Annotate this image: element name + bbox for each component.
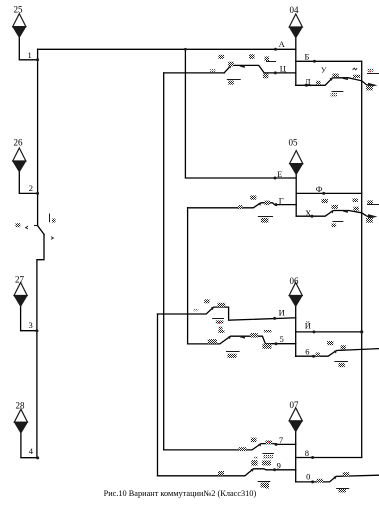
svg-text:9: 9 [277, 461, 281, 471]
antenna 28 [14, 401, 27, 434]
svg-text:25: 25 [14, 5, 24, 15]
riser R3 x=157.5 from row I down to row 9 [157, 314, 159, 476]
svg-text:Б: Б [305, 52, 310, 62]
mark row 5 d [264, 330, 272, 332]
mark row I underline [212, 318, 224, 320]
contact SC lever [224, 65, 231, 73]
svg-text:Д: Д [305, 76, 311, 86]
node 1 dot [36, 58, 39, 61]
mark row 5 underline [226, 351, 240, 353]
wire: row F from antenna 05 to right vertical [296, 192, 362, 194]
barb SX [331, 210, 334, 214]
mark row B a [265, 57, 270, 62]
mark row D b [332, 74, 338, 78]
mark row 9 b [251, 460, 257, 466]
svg-text:Ц: Ц [280, 64, 286, 74]
node J dot [312, 330, 315, 333]
mark caption area [265, 485, 269, 489]
mark row 0 c [339, 489, 347, 493]
mark row 9 d [261, 483, 270, 488]
wire: row 5 left segment with contact S5 [188, 336, 296, 344]
node B dot [313, 60, 316, 63]
bar tick row C [239, 65, 245, 68]
antenna 07 stem [295, 432, 297, 482]
mark row 6 d [339, 363, 345, 367]
svg-text:2: 2 [29, 183, 33, 193]
mark row C underline [227, 79, 241, 81]
mark row X e [367, 200, 372, 204]
mark row X g [332, 224, 337, 228]
node 9 dot [273, 468, 276, 471]
svg-text:06: 06 [290, 276, 300, 286]
antenna 26 stem and jog to node 2 [19, 172, 37, 193]
svg-text:Х: Х [305, 208, 311, 218]
svg-text:28: 28 [16, 401, 26, 411]
mark row X c [353, 198, 358, 202]
mark row D dotted2 [331, 93, 337, 98]
mark row G a [238, 205, 242, 209]
mark row G b [250, 195, 256, 199]
mark row 9 a [218, 471, 224, 476]
contact SC bar [231, 65, 296, 73]
mark row G underline [258, 216, 273, 218]
mark row D dotted [367, 68, 374, 71]
mark row C c [228, 62, 234, 67]
mark row X b [332, 205, 338, 209]
mark row 0 underline [336, 488, 349, 490]
svg-text:04: 04 [290, 5, 300, 15]
barb S5 [228, 336, 231, 340]
antenna 07 [289, 400, 302, 432]
svg-text:05: 05 [289, 138, 299, 148]
wire: row 7 left segment with contact S7 [164, 444, 296, 450]
mark row C b [249, 54, 255, 59]
contact lever arrow barbs [211, 65, 378, 480]
mark row 5 f [228, 354, 237, 358]
node 4 dot [36, 456, 39, 459]
mark row 7 c [265, 441, 272, 445]
mark row C dots [210, 69, 216, 72]
node I dot [273, 317, 276, 320]
mark row I c [216, 320, 224, 323]
mark bus switch x [52, 219, 56, 223]
svg-text:26: 26 [14, 138, 24, 148]
node 0 dot [311, 480, 314, 483]
node J right vertical dot [360, 330, 363, 333]
mark row 6 c [341, 345, 346, 349]
wire: left bus lower lever segment [37, 234, 44, 458]
node 8 dot [311, 456, 314, 459]
mark row X underline [332, 221, 343, 223]
wire: row B from antenna 04 to right vertical [296, 60, 362, 62]
mark row 0 b [343, 472, 350, 476]
mark row I a [204, 299, 209, 303]
wire: row I left segment with contact SI [158, 307, 296, 320]
wire: row C left segment [164, 72, 224, 74]
antenna 04 [289, 5, 302, 38]
barb SD [330, 77, 333, 81]
mark row D red dot [370, 71, 372, 73]
node X dot [311, 215, 314, 218]
node 5 dot [275, 342, 278, 345]
mark row 7 red dot [268, 442, 270, 444]
mark row D zigzag [353, 68, 358, 70]
bar tick row 5 [240, 336, 245, 339]
mark row 5 e [262, 344, 271, 349]
node D dot [305, 84, 308, 87]
mark row I red dot [219, 322, 221, 324]
svg-text:Ф: Ф [316, 184, 323, 194]
antenna 25 [13, 5, 26, 38]
barb S9 [251, 468, 254, 472]
mark row 6 underline [334, 361, 348, 363]
mark row I d [219, 327, 223, 330]
mark row G c [265, 201, 271, 206]
svg-text:Г: Г [279, 196, 284, 206]
node A dot [274, 48, 277, 51]
antenna 06 stem [295, 307, 297, 357]
wire: row 8 from antenna 07 to right vertical end [296, 457, 362, 459]
svg-text:Рис.10 Вариант коммутации№2 (К: Рис.10 Вариант коммутации№2 (Класс310) [104, 489, 257, 498]
barb S6 [334, 350, 337, 354]
mark bus switch c [16, 223, 21, 227]
wire: row G left segment with contact SG [188, 203, 297, 208]
mark row D d [366, 86, 373, 91]
mark row C a [219, 55, 225, 59]
wire: row J from antenna 06 to right vertical [296, 331, 362, 333]
barb SC [228, 65, 231, 69]
mark row 5 c [250, 333, 258, 338]
mark row D c [353, 75, 360, 78]
mark row X d [353, 207, 358, 211]
mark row 6 b [327, 341, 333, 345]
svg-text:07: 07 [290, 400, 300, 410]
barb SI [211, 307, 214, 311]
node 2 dot [36, 192, 39, 195]
svg-text:3: 3 [29, 320, 33, 330]
riser R4 x=164 from node C wire down to row 7 [163, 73, 165, 450]
wire: left vertical bus upper part x=37.6 [37, 49, 39, 225]
mark row D a [316, 81, 321, 85]
node E dot [274, 177, 277, 180]
node 3 dot [35, 329, 38, 332]
svg-text:У: У [321, 66, 327, 75]
wire: row 0 with contact S00 [296, 475, 379, 482]
right vertical bus x=361.7 [361, 61, 363, 457]
svg-text:27: 27 [15, 275, 25, 285]
riser R1 junction dot [184, 48, 187, 51]
mark row X f [366, 218, 373, 223]
mark row X stub line [367, 204, 379, 206]
mark row G d [261, 218, 269, 223]
barb SG [258, 202, 261, 206]
mark row 7 b [251, 438, 257, 443]
barb S7 [258, 443, 261, 447]
wire: top horizontal bus y=49 from left bus to antenna 04 [38, 48, 296, 50]
exit arrow row X [368, 214, 377, 219]
svg-text:7: 7 [279, 435, 283, 445]
node F dot [322, 192, 325, 195]
mark row 5 b [218, 330, 224, 333]
mark row 7 dotted [263, 455, 273, 459]
mark row C e [228, 81, 234, 85]
node 7 dot [275, 443, 278, 446]
mark row I b [218, 303, 226, 307]
mark row 7 dots [254, 456, 257, 459]
wire: row X with contact SX [296, 211, 368, 217]
mark row 0 a [317, 479, 324, 483]
node labels [28, 39, 323, 481]
antenna 27 [14, 275, 27, 307]
mark bus switch barb [34, 225, 38, 227]
wire: row 9 left segment with contact S9 [158, 469, 296, 476]
mark row 5 a [208, 339, 217, 344]
svg-text:8: 8 [305, 448, 309, 458]
antenna 05 stem [295, 175, 297, 217]
antenna 06 [289, 276, 302, 307]
mark row B line [266, 61, 276, 63]
mark row D stub line [367, 73, 379, 75]
exit arrow row D [368, 83, 377, 88]
svg-text:4: 4 [29, 446, 34, 456]
svg-text:5: 5 [280, 334, 284, 344]
mark row D underline [332, 91, 344, 93]
svg-text:А: А [279, 39, 286, 49]
antenna 28 stem and jog to node 4 [21, 433, 38, 458]
node G dot [275, 203, 278, 206]
mark row 6 a [316, 353, 320, 357]
antenna 27 stem and jog to node 3 [21, 307, 37, 331]
svg-text:6: 6 [305, 347, 309, 357]
svg-text:1: 1 [28, 50, 32, 60]
antenna 26 [13, 138, 26, 173]
riser R2 x=188 from row G down to row 5 [187, 208, 189, 344]
mark row I dots [193, 309, 198, 311]
mark row X a [322, 199, 328, 203]
svg-text:Й: Й [305, 321, 311, 331]
antenna 25 stem and jog to node 1 [19, 38, 37, 60]
mark row 7 a [239, 447, 247, 451]
svg-text:И: И [279, 308, 285, 318]
svg-text:Е: Е [277, 169, 282, 179]
wire: row 6 with contact S6 [296, 349, 379, 357]
mark row 9 underline [258, 481, 271, 483]
node C dot [274, 71, 277, 74]
mark row 9 c [262, 461, 271, 466]
barb S00 [333, 476, 336, 480]
bar tick row D [342, 77, 348, 80]
mark row C d [263, 74, 269, 79]
svg-text:0: 0 [306, 471, 310, 481]
contact S0 lever on left bus [38, 226, 44, 235]
mark bus switch tick line [49, 214, 51, 223]
antenna 04 stem x=295.8 [295, 38, 297, 85]
wire: row D with contact SD [296, 78, 368, 86]
antenna 05 [289, 138, 303, 175]
riser R1 x=185.6 from top bus down to node E [185, 49, 295, 178]
mark bus switch lt [26, 226, 28, 229]
bar tick row X [342, 210, 348, 213]
mark row 7 underline [263, 453, 275, 455]
node 6 dot [312, 355, 315, 358]
mark bus switch gt [51, 237, 53, 240]
